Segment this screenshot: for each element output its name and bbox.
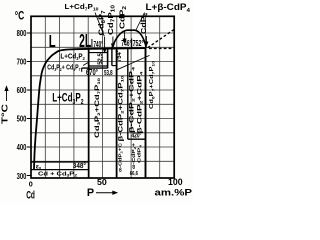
svg-text:52,5: 52,5 [97, 53, 104, 65]
svg-text:66,6: 66,6 [130, 171, 139, 177]
svg-text:β-CdP2+Cd7P10: β-CdP2+Cd7P10 [118, 74, 124, 141]
svg-text:α-CdP2+C: α-CdP2+C [117, 142, 123, 172]
svg-text:Cd6P7+Cd7P10: Cd6P7+Cd7P10 [149, 61, 155, 109]
svg-text:348°: 348° [73, 161, 86, 170]
svg-text:53,8: 53,8 [104, 70, 113, 77]
svg-text:T°C: T°C [1, 103, 10, 124]
svg-text:α-CdP2+: α-CdP2+ [131, 143, 137, 169]
svg-text:754°: 754° [115, 50, 123, 62]
svg-text:600: 600 [17, 85, 27, 95]
svg-text:300: 300 [17, 171, 27, 181]
svg-text:Cd: Cd [26, 189, 35, 201]
svg-text:2L: 2L [79, 30, 91, 51]
svg-text:P: P [87, 187, 94, 199]
svg-text:L+β-CdP4: L+β-CdP4 [146, 2, 191, 14]
svg-text:°C: °C [15, 8, 25, 22]
svg-text:700: 700 [17, 57, 27, 67]
svg-text:β-CdP2+CdP4: β-CdP2+CdP4 [137, 70, 143, 133]
svg-text:β-CdP2+CdP4: β-CdP2+CdP4 [129, 66, 135, 133]
svg-text:500: 500 [17, 114, 27, 124]
svg-text:L: L [49, 31, 56, 51]
svg-text:L+Cd3P2: L+Cd3P2 [52, 91, 83, 106]
svg-text:740°: 740° [94, 40, 104, 49]
svg-text:0: 0 [29, 180, 33, 189]
svg-text:746°: 746° [121, 39, 131, 48]
svg-text:Cd3P2+ Cd6P7: Cd3P2+ Cd6P7 [47, 62, 81, 72]
svg-text:Cd + Cd3P2: Cd + Cd3P2 [38, 172, 77, 178]
svg-text:800: 800 [17, 28, 27, 38]
svg-text:752°: 752° [133, 39, 144, 48]
svg-text:L+Cd3P2: L+Cd3P2 [60, 52, 85, 63]
svg-text:100: 100 [168, 177, 183, 187]
svg-text:400: 400 [17, 142, 27, 152]
svg-text:am.%P: am.%P [155, 188, 193, 198]
svg-text:Cd3P2+Cd7P10: Cd3P2+Cd7P10 [94, 78, 101, 138]
svg-text:50: 50 [97, 178, 107, 187]
svg-text:670°: 670° [86, 68, 98, 77]
svg-text:εx: εx [36, 163, 42, 170]
